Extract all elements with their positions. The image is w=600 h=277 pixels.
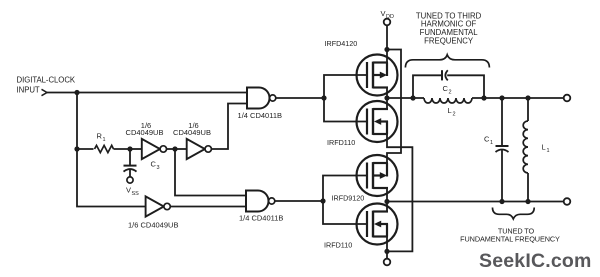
wire C1 branch bottom — [501, 150, 503, 201]
wire Q2 drain up to output node 1 — [386, 98, 388, 109]
wire node B to Q4 gate — [323, 201, 367, 224]
wire capacitor C2 branch left — [413, 75, 441, 98]
svg-text:IRFD110: IRFD110 — [327, 138, 355, 147]
svg-text:1: 1 — [103, 137, 106, 143]
wire node to inverter U1 input — [130, 148, 142, 150]
wire capacitor C2 branch right — [447, 75, 484, 98]
svg-text:IRFD4120: IRFD4120 — [325, 39, 358, 48]
node dot VDD junction — [384, 47, 389, 52]
svg-text:1: 1 — [547, 148, 550, 154]
wire node to inverter U2 input — [175, 148, 187, 150]
node dot Q3 Q4 drains — [384, 199, 389, 204]
wire tank1 right to output terminal 1 — [472, 97, 564, 99]
inductor L2 — [424, 98, 472, 103]
svg-text:V: V — [126, 186, 131, 195]
svg-text:1/6 CD4049UB: 1/6 CD4049UB — [128, 221, 178, 230]
wire digital clock input to NAND1 upper input — [47, 92, 247, 94]
svg-text:L: L — [542, 143, 546, 152]
wire R1 branch from left vertical — [77, 148, 94, 150]
wire L1 branch top — [527, 98, 529, 121]
NAND U5 bubble — [269, 198, 275, 204]
wire node after U1 down to NAND2 upper input — [175, 149, 246, 196]
svg-text:1/4 CD4011B: 1/4 CD4011B — [239, 214, 283, 223]
wire Q3 drain to output node 2 — [386, 188, 388, 202]
svg-text:FREQUENCY: FREQUENCY — [424, 37, 474, 46]
node dot input junction — [74, 90, 79, 95]
wire node A to Q2 gate — [324, 98, 367, 122]
node dot gate bus A — [321, 95, 326, 100]
svg-text:DIGITAL-CLOCK: DIGITAL-CLOCK — [17, 75, 76, 84]
NAND gate U5 1/4 CD4011B body — [246, 191, 269, 212]
transistor Q1 IRFD4120 — [357, 55, 398, 96]
svg-text:2: 2 — [453, 112, 456, 118]
svg-text:1/4 CD4011B: 1/4 CD4011B — [238, 111, 282, 120]
wire L1 branch bottom — [527, 173, 529, 202]
wire C1 branch top — [501, 98, 503, 146]
wire node down to capacitor C3 — [129, 149, 131, 165]
svg-text:CD4049UB: CD4049UB — [126, 128, 164, 137]
svg-text:2: 2 — [449, 89, 452, 95]
terminal output 1 open circle — [564, 95, 571, 102]
capacitor C1 curved plate — [496, 150, 509, 153]
terminal Vss open circle — [127, 177, 133, 183]
input arrow chevron — [42, 89, 48, 95]
node dot C1 top — [499, 95, 504, 100]
wire R1 to node C3 — [114, 148, 131, 150]
inverter U3 bubble — [164, 203, 170, 209]
wire Q4 source to bottom terminal — [386, 237, 388, 259]
svg-text:SeekIC.com: SeekIC.com — [479, 250, 592, 272]
inverter U1 1/6 CD4049UB triangle — [142, 139, 160, 159]
node dot C3 junction — [127, 146, 132, 151]
capacitor C1 top plate — [496, 145, 509, 147]
wire VDD down to Q1 source stem — [386, 25, 388, 62]
svg-text:FUNDAMENTAL FREQUENCY: FUNDAMENTAL FREQUENCY — [460, 235, 560, 244]
inductor L1 — [523, 121, 528, 173]
node dot source bus bottom — [384, 249, 389, 254]
terminal output 2 open circle — [564, 198, 571, 205]
svg-text:V: V — [381, 9, 386, 18]
node dot C1 bottom — [499, 199, 504, 204]
wire U5 output to gate node B — [275, 200, 323, 202]
wire node A to Q1 gate — [324, 75, 367, 98]
node dot Q1 Q2 drains — [384, 95, 389, 100]
capacitor C2 curved plate — [445, 70, 447, 80]
wire U3 output to NAND2 lower input — [170, 206, 246, 208]
wire left vertical from input node down to inverter U3 input — [77, 93, 146, 207]
wire U2 output up to NAND1 lower input — [211, 104, 247, 150]
wire U1 output to node — [167, 148, 176, 150]
transistor Q3 IRFD9120 — [357, 155, 398, 196]
wire Q2 source down and over (ground bus) — [387, 134, 412, 251]
inverter U1 bubble — [160, 146, 166, 152]
inverter U2 bubble — [205, 146, 211, 152]
svg-text:IRFD110: IRFD110 — [324, 241, 352, 250]
inverter U2 1/6 CD4049UB triangle — [187, 139, 205, 159]
svg-text:CD4049UB: CD4049UB — [173, 128, 211, 137]
wire VDD bus to Q3 source — [387, 50, 401, 164]
svg-text:INPUT: INPUT — [17, 86, 40, 95]
wire U4 output to gate node A — [276, 97, 324, 99]
node dot tank1 left — [410, 95, 415, 100]
terminal VDD open circle — [384, 19, 391, 26]
capacitor C3 curved plate — [124, 169, 137, 172]
wire Q1 drain to output node 1 — [386, 88, 388, 99]
inverter U3 1/6 CD4049UB triangle — [146, 196, 164, 216]
node dot L1 top — [525, 95, 530, 100]
wire node B to Q3 gate — [323, 176, 367, 202]
wire C3 to Vss terminal — [129, 170, 131, 177]
capacitor C2 left plate — [441, 70, 443, 80]
svg-text:L: L — [448, 106, 452, 115]
NAND gate U4 1/4 CD4011B body — [247, 88, 270, 109]
terminal bottom source open circle — [384, 259, 391, 266]
wire output node 1 to tank 1 — [387, 97, 424, 99]
capacitor C3 top plate — [124, 165, 137, 167]
node dot U1 output junction — [172, 146, 177, 151]
resistor R1 — [95, 145, 114, 152]
svg-text:SS: SS — [132, 191, 140, 197]
svg-text:DD: DD — [386, 14, 394, 20]
wire output node 2 to output terminal 2 — [387, 201, 564, 203]
node dot tank1 right — [481, 95, 486, 100]
wire Q4 drain up to output node 2 — [386, 202, 388, 212]
svg-text:3: 3 — [157, 165, 160, 171]
brace over third harmonic tank — [405, 55, 489, 68]
transistor Q4 IRFD110 — [357, 204, 398, 245]
brace under fundamental tank — [493, 208, 535, 219]
node dot R1 branch — [74, 146, 79, 151]
transistor Q2 IRFD110 — [357, 101, 398, 142]
NAND U4 bubble — [270, 95, 276, 101]
node dot L1 bottom — [525, 199, 530, 204]
svg-text:IRFD9120: IRFD9120 — [332, 194, 365, 203]
node dot gate bus B — [320, 198, 325, 203]
svg-text:1: 1 — [490, 140, 493, 146]
